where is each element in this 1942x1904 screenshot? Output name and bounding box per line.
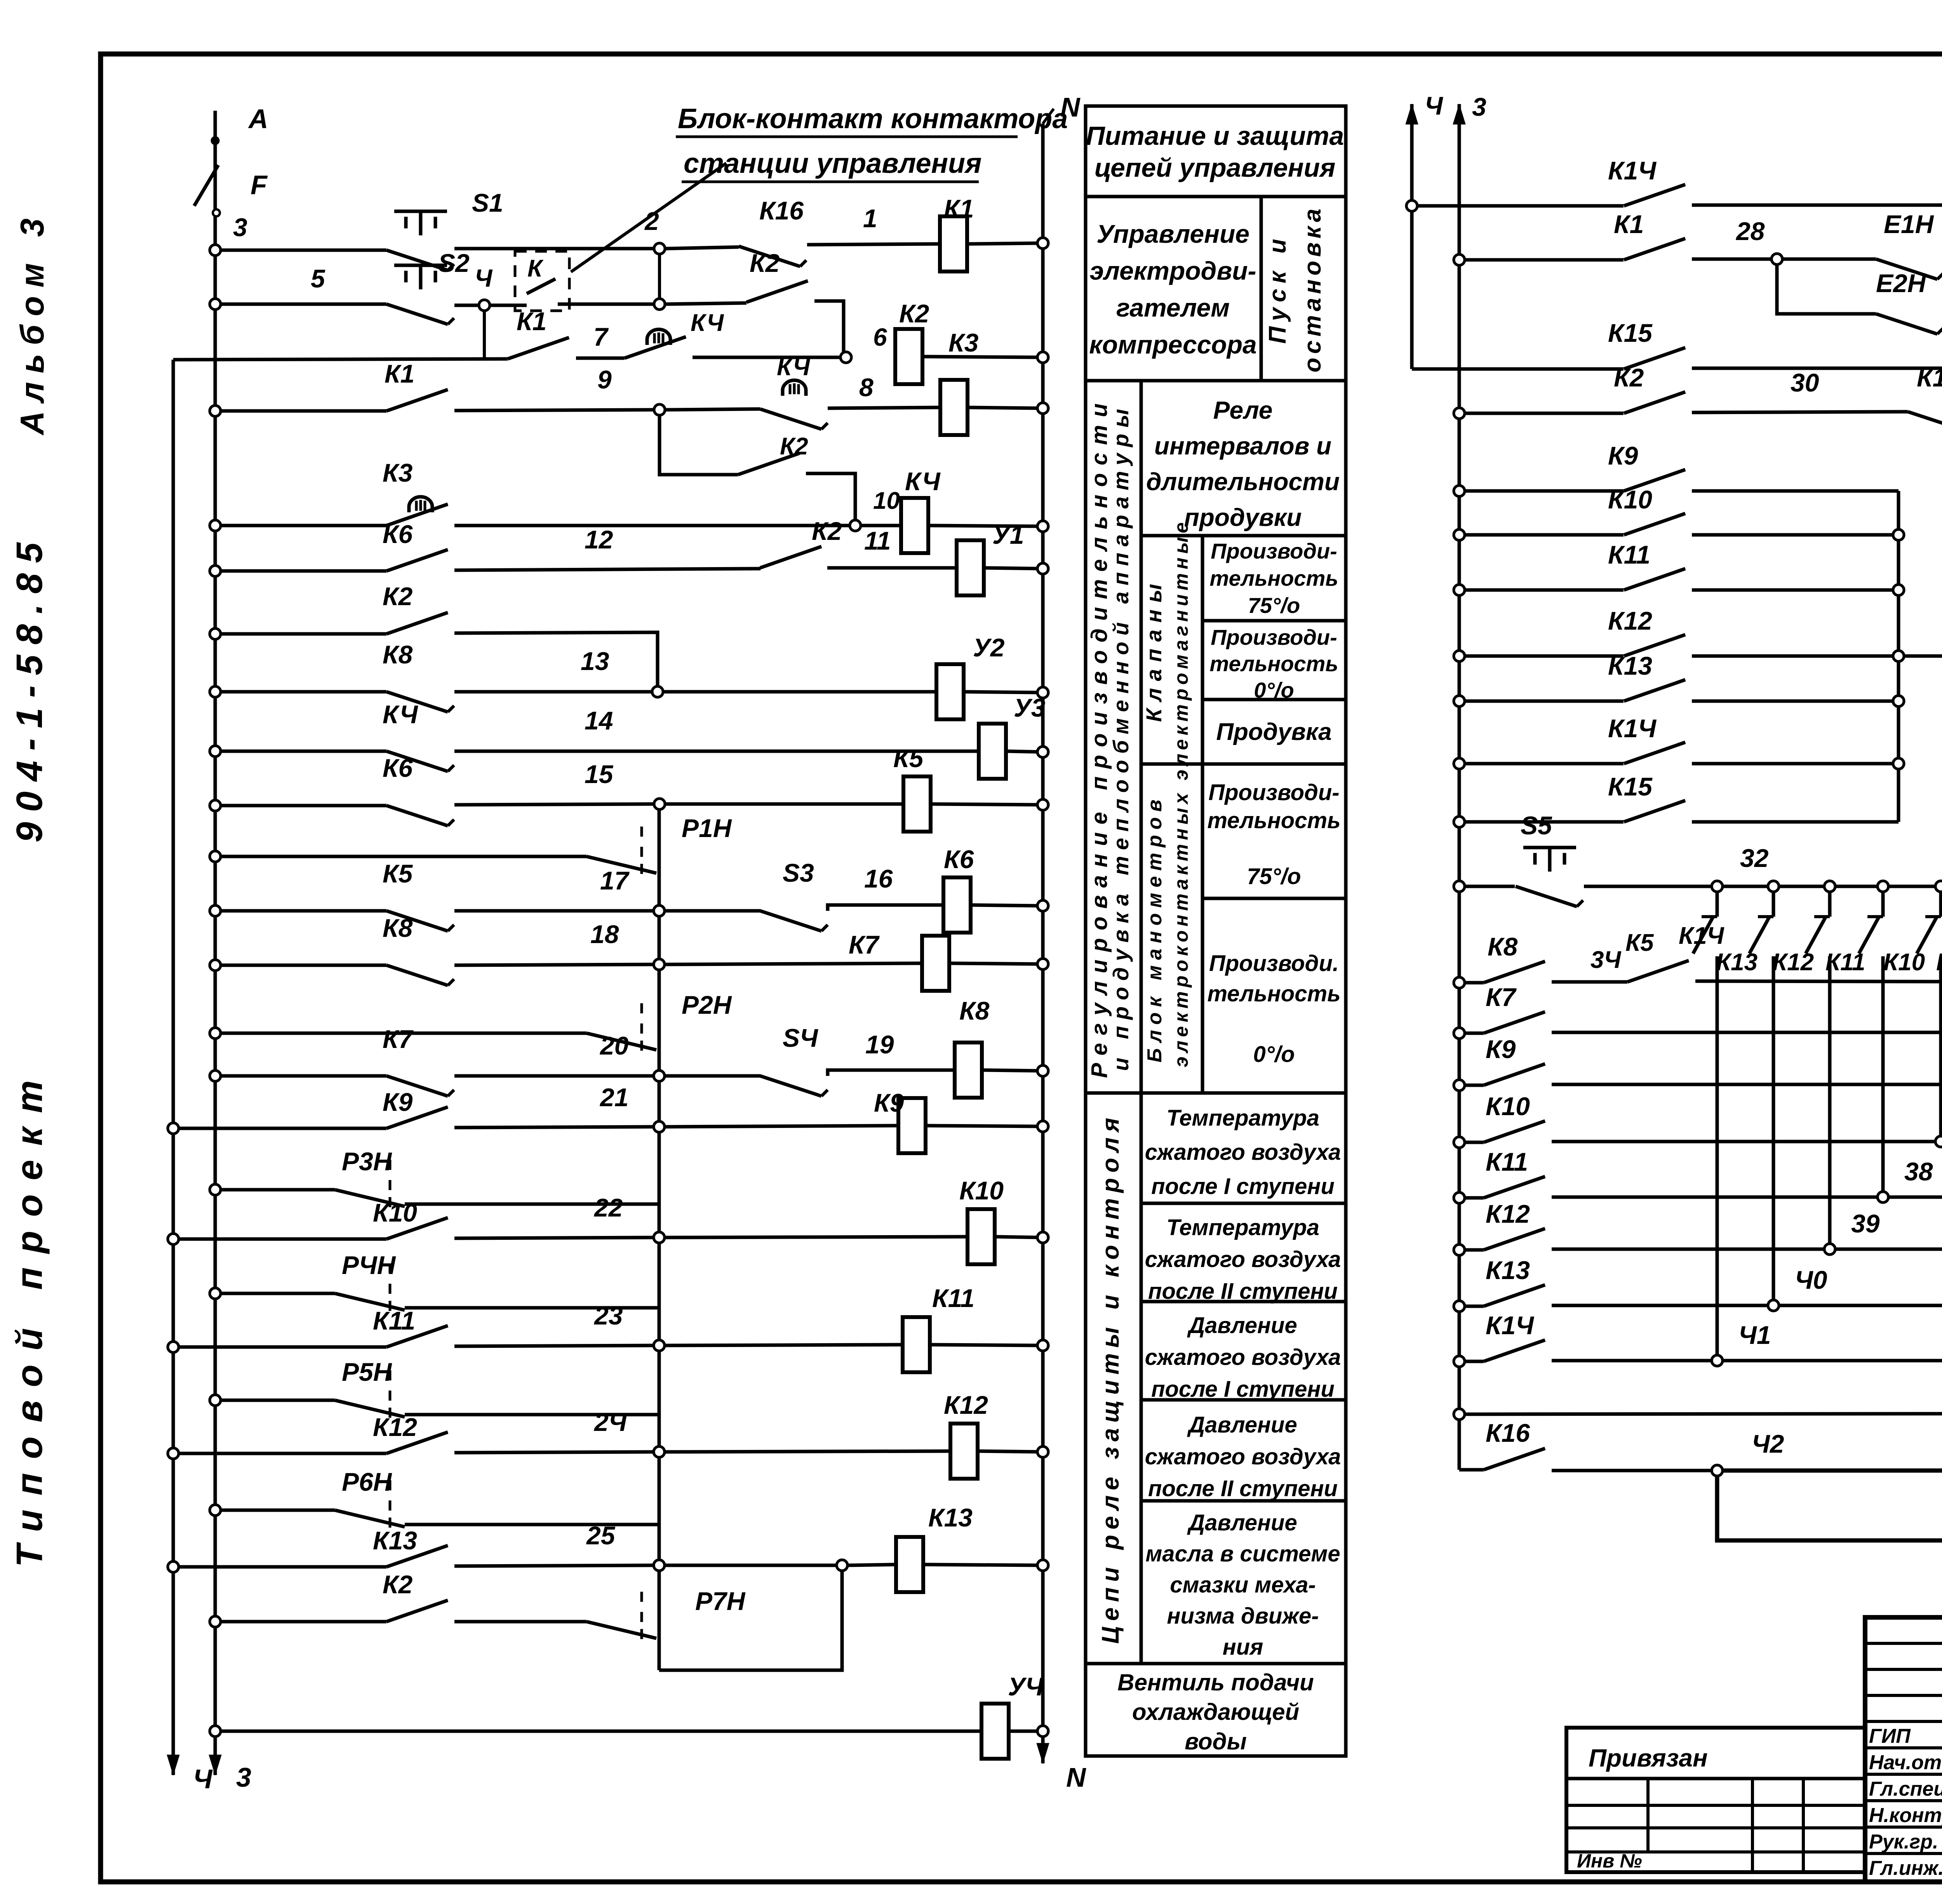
wire 33a: [1552, 947, 1627, 982]
wire 12b: [828, 864, 944, 911]
wire 1264 right: [1692, 489, 1898, 493]
lamp test contact К11 vertical: [1825, 881, 1888, 1198]
svg-text:Ч1: Ч1: [1738, 1321, 1771, 1349]
contact K2 row30: [1614, 363, 1685, 413]
svg-text:К9: К9: [874, 1088, 904, 1117]
node 13: [454, 647, 663, 697]
svg-text:К15: К15: [1608, 772, 1653, 801]
svg-text:К1: К1: [1614, 210, 1644, 238]
svg-text:Вентиль подачи: Вентиль подачи: [1117, 1669, 1314, 1695]
svg-text:К2: К2: [812, 517, 842, 545]
svg-text:20: 20: [599, 1031, 629, 1060]
svg-text:КЧ: КЧ: [777, 354, 810, 381]
svg-text:К7: К7: [1486, 983, 1517, 1011]
wire 24a: [665, 1560, 896, 1571]
wire 9a: [454, 706, 979, 751]
svg-text:Р1Н: Р1Н: [682, 814, 732, 842]
svg-text:тельность: тельность: [1207, 808, 1340, 833]
svg-text:15: 15: [585, 760, 614, 788]
contact К9 row 36: [1484, 1035, 1545, 1085]
svg-text:Ч: Ч: [1425, 91, 1443, 120]
wire 6b: [827, 526, 956, 568]
contactor block-contact K dashed box: [491, 251, 660, 311]
wire row К11 1519: [1454, 585, 1624, 595]
svg-text:S3: S3: [783, 858, 814, 887]
svg-text:длительности: длительности: [1146, 468, 1340, 496]
wire 20b: [930, 1340, 1048, 1351]
node 2: [644, 207, 739, 254]
svg-text:К10: К10: [373, 1198, 417, 1227]
contact K5 rung12: [383, 859, 454, 931]
branch E2H: [1777, 265, 1876, 314]
wire 8a: [664, 690, 936, 694]
svg-text:Реле: Реле: [1213, 396, 1273, 424]
svg-text:Инв №: Инв №: [1577, 1850, 1642, 1872]
svg-text:К15: К15: [1608, 318, 1653, 347]
wire 16a: [665, 1126, 898, 1127]
right bus 4 vertical: [1410, 135, 1414, 369]
contact К9 row1264: [1608, 441, 1685, 491]
svg-text:Блок манометров: Блок манометров: [1143, 794, 1166, 1063]
middle table rotated: manometer block: [1141, 764, 1202, 1093]
node 4: [454, 264, 493, 360]
contact K12 rung22: [373, 1413, 448, 1453]
contact E1H: [1876, 210, 1942, 279]
node 9: [654, 404, 665, 415]
svg-text:К12: К12: [1608, 606, 1652, 635]
svg-text:3: 3: [236, 1762, 251, 1793]
node 18: [454, 920, 665, 970]
middle table cell: temperature stage I: [1141, 1093, 1346, 1203]
wire rung 9: [210, 746, 386, 757]
svg-text:Ч: Ч: [475, 264, 493, 292]
contact P4H: [210, 1251, 659, 1315]
contact К11 row 38: [1484, 1147, 1545, 1198]
svg-text:электродви-: электродви-: [1089, 256, 1256, 285]
svg-text:К7: К7: [383, 1025, 414, 1053]
node 20: [454, 1031, 665, 1081]
svg-text:Гл.инж.: Гл.инж.: [1869, 1857, 1942, 1880]
wire 8b: [964, 687, 1048, 698]
wire 16b: [926, 1121, 1048, 1132]
solenoid coil Y3: [979, 693, 1045, 779]
svg-text:К12: К12: [1772, 949, 1814, 976]
svg-text:Блок-контакт контактора: Блок-контакт контактора: [678, 103, 1068, 134]
right bus 3 vertical: [1458, 135, 1461, 1470]
svg-text:2Ч: 2Ч: [593, 1408, 627, 1436]
right bus 4 arrow top: [1406, 91, 1443, 135]
svg-text:К2: К2: [750, 249, 780, 277]
svg-text:Е1Н: Е1Н: [1884, 210, 1934, 238]
thermal contact K4 rung4: [760, 354, 828, 429]
bus 3 bottom arrow: [209, 1744, 251, 1793]
middle table rotated: regulation of output: [1086, 381, 1141, 1093]
solenoid coil Y4: [981, 1672, 1044, 1759]
solenoid coil Y1: [957, 520, 1024, 595]
wire 25a: [454, 1620, 586, 1624]
wire rung 18: [168, 1234, 386, 1244]
svg-text:К2: К2: [780, 433, 808, 460]
svg-text:тельность: тельность: [1207, 981, 1340, 1006]
node 37: [1935, 1136, 1942, 1147]
signature names: [1869, 1725, 1942, 1880]
relay coil K6: [943, 877, 971, 933]
wire row К15 2116: [1454, 816, 1624, 827]
wire 33b: [1695, 941, 1942, 982]
svg-text:Альбом 3: Альбом 3: [14, 210, 51, 435]
switch F: [194, 163, 268, 249]
node 23: [454, 1301, 665, 1351]
svg-text:РЧН: РЧН: [342, 1251, 396, 1279]
wire 3b: [693, 356, 840, 359]
svg-text:Р2Н: Р2Н: [682, 990, 732, 1019]
svg-text:Управление: Управление: [1096, 219, 1249, 248]
contact K15 row29: [1608, 318, 1685, 369]
relay coil K12: [950, 1424, 978, 1479]
svg-text:К1: К1: [944, 194, 974, 223]
wire row 39 Н6: [1454, 1244, 1484, 1255]
contact K5 row33: [1625, 929, 1689, 982]
svg-text:гателем: гателем: [1116, 293, 1230, 322]
wire rung 20: [168, 1342, 386, 1352]
svg-text:К10: К10: [1486, 1092, 1530, 1121]
svg-text:К10: К10: [959, 1176, 1004, 1205]
svg-text:низма движе-: низма движе-: [1167, 1603, 1319, 1629]
node 28: [1771, 254, 1782, 265]
wire 38 a: [1552, 1157, 1933, 1197]
node 39: [1824, 1244, 1942, 1255]
contact K9 rung16: [383, 1088, 448, 1128]
contact K10 rung18: [373, 1198, 448, 1239]
svg-text:Цепи реле защиты и контрол: Цепи реле защиты и контроля: [1097, 1112, 1124, 1644]
wire row 32: [1454, 881, 1515, 892]
bus 4 bottom arrow: [167, 1744, 213, 1794]
svg-text:2: 2: [644, 207, 659, 235]
wire 28b: [1783, 258, 1876, 261]
svg-text:К5: К5: [383, 859, 413, 888]
wire 4a: [454, 365, 653, 411]
contact К11 row1519: [1608, 540, 1685, 590]
svg-text:К9: К9: [1936, 949, 1942, 976]
vertical collector 4888: [1893, 491, 1904, 822]
svg-text:19: 19: [865, 1030, 894, 1059]
svg-text:К11: К11: [1825, 949, 1865, 976]
svg-text:3: 3: [233, 213, 247, 242]
svg-text:Привязан: Привязан: [1589, 1744, 1708, 1772]
svg-text:16: 16: [864, 864, 893, 893]
wire HL a: [1552, 1469, 1711, 1472]
relay coil K7: [922, 936, 949, 991]
svg-text:Продувка: Продувка: [1216, 719, 1331, 745]
wire row Ч1 Н8: [1454, 1356, 1484, 1367]
contact K11 rung20: [373, 1306, 448, 1347]
svg-text:Нач.отд.: Нач.отд.: [1869, 1751, 1942, 1774]
svg-text:11: 11: [864, 526, 891, 555]
middle table rotated: protection relay circuits: [1086, 1093, 1141, 1664]
svg-text:Рук.гр.: Рук.гр.: [1869, 1831, 1938, 1853]
contact К13 row1805: [1608, 651, 1685, 701]
svg-text:28: 28: [1735, 217, 1765, 245]
wire 1b: [807, 204, 940, 245]
node 25: [454, 1521, 665, 1571]
svg-text:тельность: тельность: [1209, 566, 1338, 590]
svg-text:К5: К5: [893, 744, 924, 773]
wire 12a: [665, 909, 760, 913]
wire 5c: [928, 521, 1048, 532]
wire row К9 1264: [1454, 486, 1624, 496]
svg-text:остановка: остановка: [1299, 205, 1326, 372]
svg-text:38: 38: [1904, 1157, 1933, 1186]
svg-text:Ч: Ч: [193, 1764, 213, 1794]
contact K2 rung7: [383, 582, 448, 634]
wire 3a: [576, 322, 625, 358]
svg-text:сжатого воздуха: сжатого воздуха: [1145, 1444, 1341, 1469]
wire 7a corner: [454, 632, 658, 686]
right bus 3 arrow top: [1453, 92, 1486, 135]
wire row Ч0 Н7: [1454, 1301, 1484, 1312]
svg-text:К2: К2: [1614, 363, 1644, 392]
svg-text:17: 17: [600, 866, 630, 895]
wire row 29: [1412, 367, 1624, 371]
wire 18a: [665, 1237, 968, 1237]
relay coil K10: [968, 1209, 995, 1264]
svg-text:КЧ: КЧ: [691, 310, 724, 336]
svg-text:К13: К13: [1716, 949, 1758, 976]
wire 1966 right: [1692, 762, 1898, 766]
wire 3c: [922, 352, 1048, 363]
relay coil K11: [903, 1317, 930, 1372]
pushbutton S5: [1516, 811, 1583, 907]
N bus left ladder: [1043, 92, 1081, 1731]
contact P6H: [210, 1467, 659, 1532]
contact K1 row28: [1614, 210, 1685, 260]
wire 1377 right: [1692, 533, 1898, 537]
svg-text:К13: К13: [373, 1526, 417, 1555]
wire 6c: [984, 563, 1048, 574]
svg-text:продувки: продувки: [1184, 503, 1302, 531]
svg-text:У1: У1: [992, 520, 1024, 549]
svg-text:S1: S1: [472, 188, 503, 217]
wire row HL: [1459, 1468, 1484, 1472]
wire 12c: [971, 900, 1048, 911]
svg-text:К9: К9: [1486, 1035, 1516, 1063]
svg-text:охлаждающей: охлаждающей: [1132, 1699, 1299, 1725]
svg-text:тельность: тельность: [1209, 651, 1338, 676]
relay coil K3: [940, 380, 968, 435]
lamp test contact К9 vertical: [1936, 881, 1942, 1085]
svg-text:Р6Н: Р6Н: [342, 1467, 392, 1496]
wire 10b: [931, 799, 1048, 810]
svg-text:7: 7: [593, 322, 609, 351]
svg-text:К: К: [527, 255, 544, 282]
svg-text:F: F: [251, 170, 268, 200]
svg-text:К8: К8: [959, 996, 990, 1025]
contact K4 rung9: [383, 700, 454, 771]
relay coil K13: [896, 1537, 923, 1592]
vertical node2 to rung2: [658, 255, 661, 298]
lamp test contact К12 vertical: [1772, 881, 1835, 1250]
svg-text:Ч0: Ч0: [1795, 1265, 1827, 1294]
svg-text:21: 21: [599, 1083, 628, 1112]
wire 4d: [968, 403, 1048, 414]
wire 37 a: [1552, 1102, 1942, 1142]
contact P2H: [210, 990, 732, 1055]
svg-text:S5: S5: [1521, 811, 1552, 840]
middle table cell: output 0 manometers: [1202, 898, 1346, 1093]
wire 35 a: [1552, 992, 1942, 1032]
svg-text:сжатого воздуха: сжатого воздуха: [1145, 1345, 1341, 1370]
svg-text:К2: К2: [383, 582, 413, 611]
svg-text:УЧ: УЧ: [1008, 1672, 1044, 1701]
svg-text:23: 23: [593, 1301, 623, 1330]
wire rung 25: [210, 1616, 386, 1627]
svg-text:К10: К10: [1883, 949, 1925, 976]
wire 28a: [1692, 217, 1771, 259]
node 42: [1712, 1429, 1942, 1476]
svg-text:К11: К11: [1608, 540, 1650, 569]
wire row К1Ч 1966: [1454, 758, 1624, 769]
svg-text:К6: К6: [383, 754, 413, 782]
svg-text:К1Ч: К1Ч: [1486, 1311, 1534, 1340]
svg-text:сжатого воздуха: сжатого воздуха: [1145, 1140, 1341, 1165]
middle table cell: compressor motor control: [1086, 197, 1261, 381]
node 15: [454, 760, 665, 809]
contact К12 row 39: [1484, 1199, 1545, 1250]
relay coil K4: [901, 498, 928, 553]
svg-text:после II ступени: после II ступени: [1148, 1476, 1338, 1501]
svg-text:К7: К7: [849, 930, 880, 959]
branch K2 below rung 4: [660, 416, 738, 475]
wire row 27: [1406, 200, 1624, 211]
contact E2H: [1876, 269, 1942, 334]
wire row 35 Н2: [1454, 1028, 1484, 1039]
middle table cell: output 75 manometers: [1202, 764, 1346, 898]
svg-text:К3: К3: [948, 328, 978, 357]
wire 27a: [1692, 165, 1942, 205]
contact К7 row 35: [1484, 983, 1545, 1033]
wire row 38 Н5: [1454, 1192, 1484, 1203]
svg-text:К12: К12: [944, 1391, 988, 1419]
wire 4b: [666, 409, 760, 410]
svg-text:1: 1: [863, 204, 877, 233]
middle table cell: pressure stage I: [1141, 1302, 1346, 1402]
contact K8 row33: [1484, 932, 1545, 983]
vertical chain node15 to node21: [658, 804, 661, 1126]
svg-text:3: 3: [1472, 92, 1486, 121]
svg-text:К1Ч: К1Ч: [1679, 922, 1724, 949]
svg-text:и продувка теплообменной аппар: и продувка теплообменной аппаратуры: [1108, 403, 1133, 1071]
svg-text:Пуск и: Пуск и: [1264, 233, 1291, 344]
vertical chain node21 down to P7H: [658, 1127, 661, 1670]
svg-text:К3: К3: [383, 458, 412, 487]
lamp test contact К10 vertical: [1883, 881, 1942, 1142]
contact К12 row1689: [1608, 606, 1685, 656]
wire 1c: [967, 238, 1048, 249]
svg-text:К11: К11: [373, 1306, 415, 1335]
svg-text:9: 9: [597, 365, 612, 394]
node 17: [454, 866, 665, 916]
svg-text:SЧ: SЧ: [783, 1023, 818, 1052]
wire 2b corner to node 6: [814, 301, 844, 358]
svg-text:К2: К2: [899, 299, 929, 328]
wire 4c: [828, 373, 940, 408]
wire 24b: [923, 1560, 1048, 1571]
wire 13a: [665, 963, 922, 964]
wire rung 16: [168, 1123, 386, 1134]
contact К13 row Ч0: [1484, 1256, 1545, 1306]
wire 30a: [1692, 368, 1908, 412]
svg-text:сжатого воздуха: сжатого воздуха: [1145, 1247, 1341, 1272]
svg-text:Гл.спец: Гл.спец: [1869, 1778, 1942, 1800]
contact К10 row1377: [1608, 485, 1685, 535]
contact K8 rung8: [383, 640, 454, 712]
relay coil K8: [955, 1043, 982, 1098]
relay coil K1: [940, 216, 967, 272]
wire rung 26: [210, 1726, 981, 1737]
wire rung 8: [210, 686, 386, 697]
wire 1519 right: [1692, 588, 1898, 592]
bus 4 left vertical: [172, 360, 175, 1748]
wire row 37 НЧ: [1454, 1137, 1484, 1148]
svg-text:КЧ: КЧ: [383, 700, 418, 729]
svg-text:интервалов и: интервалов и: [1154, 432, 1331, 460]
wire row H9: [1454, 1409, 1942, 1420]
svg-text:Давление: Давление: [1187, 1510, 1297, 1535]
svg-text:электроконтактных: электроконтактных: [1170, 789, 1192, 1067]
wire rung 22: [168, 1448, 386, 1459]
node 38: [1878, 1192, 1942, 1203]
wire rung 4: [210, 406, 386, 416]
wire 1689 right: [1692, 614, 1942, 656]
svg-text:К1: К1: [385, 359, 414, 388]
svg-text:6: 6: [873, 323, 887, 351]
svg-text:смазки меха-: смазки меха-: [1170, 1572, 1316, 1598]
svg-text:32: 32: [1740, 844, 1769, 872]
wire 39 a: [1552, 1209, 1880, 1249]
contact K1 rung3: [508, 307, 569, 359]
svg-text:К1Ч: К1Ч: [1608, 156, 1657, 185]
middle table cell: output 75 valves: [1202, 536, 1346, 621]
svg-text:Температура: Температура: [1166, 1105, 1319, 1131]
node Ч1: [1712, 1355, 1942, 1366]
wire 1a: [454, 247, 653, 251]
wire Ч0 a: [1552, 1265, 1827, 1305]
svg-text:Е2Н: Е2Н: [1876, 269, 1926, 298]
wire 5b: [861, 524, 901, 527]
svg-text:К6: К6: [383, 520, 413, 548]
relay coil K2: [895, 329, 922, 384]
wire row К13 1805: [1454, 696, 1624, 707]
wire P7H loop: [659, 1572, 842, 1670]
title block signature grid: [1865, 1617, 1942, 1882]
contact K2 branch: [738, 433, 808, 475]
svg-text:ния: ния: [1223, 1634, 1263, 1660]
svg-text:К13: К13: [1608, 651, 1652, 680]
contact K2 rung6: [760, 517, 842, 568]
svg-text:К13: К13: [1486, 1256, 1530, 1284]
wire rung 6: [210, 566, 386, 576]
svg-text:Давление: Давление: [1187, 1412, 1297, 1438]
node 21: [454, 1083, 665, 1132]
node rings overlay: [210, 245, 221, 256]
wire row К10 1377: [1454, 529, 1624, 540]
contact K14 row27: [1608, 156, 1685, 206]
svg-text:75°/о: 75°/о: [1248, 593, 1300, 618]
svg-text:после I ступени: после I ступени: [1151, 1377, 1335, 1402]
contact K16: [739, 196, 806, 266]
contact P7H: [586, 1587, 746, 1643]
node 24: [454, 1408, 665, 1457]
